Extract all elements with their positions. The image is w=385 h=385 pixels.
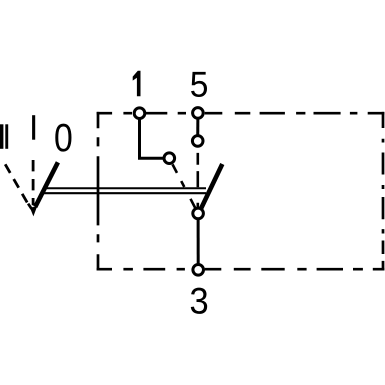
enclosure dash-dot box: [97, 112, 385, 271]
wire pivot to terminal 3: [197, 213, 200, 269]
dashed contact position line B to pivot: [197, 153, 200, 208]
dashed actuator position I line: [32, 160, 35, 205]
link lower line: [42, 192, 206, 194]
terminal 1 circle: [134, 108, 145, 119]
contact A circle: [164, 153, 175, 164]
contact B circle: [192, 136, 203, 147]
link upper line: [45, 187, 206, 189]
label position I: [32, 115, 35, 140]
box right edge: [382, 112, 385, 271]
box bottom edge: [97, 268, 385, 271]
terminal 5 circle: [193, 108, 204, 119]
pivot contact circle: [193, 208, 204, 219]
actuator arrow head tip: [30, 207, 37, 217]
label position 0: [55, 124, 71, 152]
actuator arrow head left barb: [28, 204, 32, 209]
dashed contact position line A to pivot: [173, 164, 196, 208]
box left edge: [97, 112, 100, 271]
wire terminal 5 to contact B: [196, 113, 199, 141]
label position II: [0, 124, 8, 149]
label terminal 5: [191, 72, 207, 97]
moving contact lever: [201, 164, 222, 209]
box top edge: [97, 112, 385, 115]
wire terminal 1 to contact A: [140, 113, 170, 158]
mechanical link double line: [42, 188, 206, 193]
actuator lever: [35, 162, 58, 207]
label terminal 1: [133, 71, 141, 97]
label terminal 3: [191, 288, 207, 314]
terminal 3 circle: [193, 265, 204, 276]
dashed actuator position II line: [5, 164, 29, 206]
